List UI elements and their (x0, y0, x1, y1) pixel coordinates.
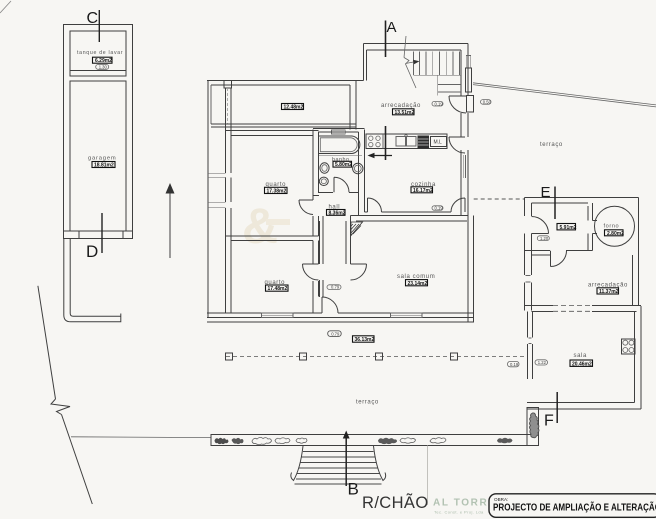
garage door notch right (123, 231, 133, 239)
house bottom wall (207, 313, 474, 318)
svg-text:terraço: terraço (540, 142, 563, 148)
window sill sala left (529, 338, 532, 344)
dashed connector house to east block (474, 198, 525, 200)
store room right wall (588, 203, 593, 251)
north arrow shaft (169, 192, 171, 258)
svg-text:1.20: 1.20 (540, 236, 549, 241)
svg-text:8.36m2: 8.36m2 (329, 210, 346, 216)
stair landing line (414, 75, 462, 95)
sala comum door (351, 264, 367, 280)
svg-text:sala: sala (574, 353, 587, 359)
area label 2.80m2 (605, 230, 624, 236)
toilet (320, 163, 329, 173)
svg-text:0.19: 0.19 (435, 101, 444, 106)
section line B (345, 438, 347, 486)
svg-text:23.14m2: 23.14m2 (408, 281, 428, 287)
area label 16.17m2 (411, 187, 433, 193)
svg-text:F: F (544, 413, 554, 430)
shelf under tub (319, 155, 363, 157)
area label 13.51m2 (393, 109, 415, 115)
area label 23.14m2 (406, 280, 428, 286)
svg-text:12.48m2: 12.48m2 (284, 105, 304, 111)
svg-text:16.17m2: 16.17m2 (413, 188, 433, 194)
veranda dashed edge (226, 356, 527, 358)
area label 17.38m2 (265, 187, 288, 193)
dim tag 1.20 (537, 236, 549, 241)
boundary line lower (62, 415, 93, 505)
section line E (554, 187, 556, 220)
kitchen left wall (359, 130, 365, 216)
veranda edge line (207, 321, 474, 323)
svg-text:B: B (348, 480, 359, 499)
plant clump vertical band (530, 413, 540, 438)
quarto2 right wall (313, 240, 319, 313)
corridor dim tag 0.79 (327, 285, 341, 290)
terrain double line top right (473, 83, 656, 107)
area label 8.36m2 (327, 210, 346, 216)
quarto1 left wall (226, 88, 232, 313)
svg-text:Tec. Const. e Proj. Lda: Tec. Const. e Proj. Lda (434, 510, 484, 515)
svg-text:1.22: 1.22 (538, 360, 547, 365)
section line C (98, 10, 100, 42)
veranda post 4 (451, 353, 458, 360)
dim tag 0.19 top wall (432, 101, 443, 106)
section line A lower (385, 126, 387, 160)
quarto2 door (303, 264, 319, 280)
door into store room 5.91 (532, 217, 549, 234)
svg-text:AL TORRE: AL TORRE (433, 498, 497, 509)
area label 12.48m2 (282, 104, 304, 110)
svg-text:C: C (87, 10, 99, 27)
veranda dim tag 0.79 (328, 331, 342, 337)
area label 36.13m2 (353, 336, 375, 342)
section line F (556, 392, 558, 423)
svg-text:OBRA:: OBRA: (494, 497, 508, 502)
veranda post 3 (376, 353, 383, 360)
svg-text:M.L: M.L (434, 140, 443, 146)
area label 6.29m2 (93, 57, 113, 63)
planter band horizontal (211, 434, 539, 445)
svg-text:terraço: terraço (356, 400, 379, 406)
plant clump outline 5 (430, 438, 446, 444)
window sill east left wall (526, 276, 531, 283)
hatched corner triangle (351, 222, 363, 236)
forno circle (595, 206, 635, 246)
svg-text:tanque de lavar: tanque de lavar (77, 50, 123, 56)
kitchen upper right door (449, 137, 465, 153)
plant clump outline 3 (378, 438, 397, 444)
sala stove (621, 339, 635, 354)
sala comum top wall (351, 216, 469, 222)
svg-text:2.80m2: 2.80m2 (607, 231, 624, 237)
cozinha door right in bottom wall (451, 198, 465, 212)
plant clump outline 2 (275, 438, 290, 444)
plant clump dark 1 (215, 438, 229, 444)
door arrecadacao to terrace (449, 96, 466, 113)
divider wall tanque/garagem (70, 71, 126, 77)
store room bottom wall (524, 251, 592, 255)
bidet (319, 177, 328, 185)
window bottom left (262, 313, 294, 318)
forno neck (593, 220, 598, 233)
east block right wall (633, 197, 639, 306)
area label 17.48m2 (266, 285, 289, 291)
bathtub (319, 136, 360, 154)
plant clump dark 2 (232, 438, 244, 444)
corridor left wall (320, 216, 324, 297)
door store room to arrecadacao (551, 251, 567, 267)
svg-text:6.29m2: 6.29m2 (95, 58, 112, 64)
svg-text:1.30: 1.30 (99, 65, 108, 70)
corridor right wall (346, 216, 351, 265)
svg-text:&: & (242, 198, 278, 254)
exterior door at corridor bottom (322, 297, 338, 313)
wall between quartos (226, 236, 319, 241)
sala right wall (635, 306, 642, 409)
house left outer edge (207, 81, 209, 319)
dishwasher dark unit (418, 136, 430, 149)
svg-text:A: A (387, 19, 397, 36)
fan stair right flare (374, 446, 386, 481)
boundary line upper (38, 286, 56, 399)
house top wall (207, 81, 364, 86)
garage door notch left (64, 231, 80, 239)
page corner mark (0, 1, 11, 13)
stove burners (382, 134, 384, 149)
window lines in right wall (463, 155, 465, 178)
area label 20.46m2 (570, 360, 593, 366)
sink double bowl (396, 137, 406, 147)
strip room left inner line (210, 85, 212, 124)
plant clump outline 1 (252, 437, 272, 444)
kitchen counter outline (366, 134, 447, 149)
window bottom right (391, 313, 423, 318)
dim tag 0.50 terrain (481, 100, 492, 105)
section line D (101, 213, 103, 253)
title block frame (489, 494, 656, 518)
veranda post 2 (300, 353, 307, 360)
section line A upper (385, 21, 387, 58)
top wall pillar notch (224, 81, 232, 89)
plant clump dark 3 (296, 438, 307, 443)
dim tag 0.19 left of sala (508, 361, 520, 366)
boundary break mark (51, 399, 70, 415)
quarto1 top wall (226, 131, 319, 136)
garage outer wall (64, 25, 133, 239)
sala bottom wall (527, 403, 641, 409)
strip room bottom wall (211, 124, 356, 127)
stair block top wall (364, 44, 469, 51)
svg-text:garagem: garagem (88, 156, 116, 162)
sala left wall (528, 311, 533, 379)
banho bottom wall (313, 192, 359, 195)
svg-text:forno: forno (604, 224, 620, 230)
svg-text:18.81m2: 18.81m2 (94, 163, 114, 169)
svg-text:D: D (86, 242, 98, 261)
east block left wall upper (524, 197, 531, 310)
faint crease line below planter (427, 446, 429, 506)
fan stair treads (295, 452, 382, 485)
quarto1 door (299, 200, 313, 215)
strip room right wall (350, 81, 356, 130)
stair lower treads (438, 85, 461, 93)
garagem inner wall (70, 81, 126, 231)
section A arrow (370, 155, 393, 157)
section B arrow head (343, 431, 350, 439)
banho top wall (313, 129, 365, 133)
east block top wall (524, 197, 638, 203)
stair upper flight treads (414, 52, 460, 75)
dim tag 1.22 (535, 360, 548, 365)
svg-text:5.80m2: 5.80m2 (335, 162, 352, 168)
cozinha door left in bottom wall (368, 198, 382, 212)
svg-text:0.79: 0.79 (331, 332, 340, 337)
arrecadacao2 bottom wall (524, 306, 641, 312)
svg-text:R/CHÃO: R/CHÃO (362, 492, 429, 512)
plant clump dark 4 (497, 438, 513, 444)
window sill upper left (208, 173, 226, 177)
right wall with window (461, 150, 468, 216)
svg-text:0.79: 0.79 (331, 285, 340, 290)
cozinha dim tag 0.79 (432, 206, 443, 210)
M.L appliance box (431, 137, 447, 147)
tanque inner wall (70, 31, 126, 71)
fan stair left flare (291, 446, 303, 481)
sala comum right wall (468, 216, 474, 322)
niche in banho top wall (332, 130, 346, 134)
area label 5.91m2 (557, 224, 576, 230)
svg-text:0.50: 0.50 (483, 100, 492, 105)
window sill lower left (208, 202, 226, 207)
garden wall from garage (64, 239, 121, 322)
stair block right wall upper (461, 44, 468, 97)
svg-text:5.91m2: 5.91m2 (560, 225, 577, 231)
veranda post 1 (226, 353, 233, 360)
stair direction arrow (404, 58, 416, 89)
svg-text:36.13m2: 36.13m2 (355, 337, 375, 343)
banho door (334, 177, 349, 192)
area label 11.37m2 (597, 288, 619, 294)
quarto1 right wall (313, 130, 319, 236)
washbasin (353, 163, 363, 173)
stair block left wall (364, 44, 367, 81)
area label 5.80m2 (333, 161, 352, 167)
svg-text:E: E (541, 184, 551, 201)
window dashes in wall (553, 306, 592, 312)
svg-text:0.19: 0.19 (510, 362, 519, 367)
svg-text:arrecadação: arrecadação (381, 103, 421, 109)
kitchen bottom wall (351, 212, 452, 216)
svg-text:13.51m2: 13.51m2 (395, 110, 415, 116)
dim tag 1.30 (96, 65, 109, 70)
dashed wall edge top-left (227, 88, 229, 124)
svg-text:11.37m2: 11.37m2 (599, 289, 619, 295)
svg-text:0.19: 0.19 (435, 206, 444, 211)
right wall segment below stair door (461, 113, 468, 137)
svg-text:17.48m2: 17.48m2 (268, 286, 288, 292)
north arrow head (166, 183, 175, 194)
svg-text:20.46m2: 20.46m2 (572, 361, 592, 367)
area label 18.81m2 (92, 162, 115, 168)
plant clump outline 4 (400, 438, 416, 444)
terrain line to planter (71, 436, 211, 439)
planter band vertical (527, 408, 539, 446)
wall window segments right of stairs (466, 56, 471, 68)
svg-text:PROJECTO DE AMPLIAÇÃO E ALTERA: PROJECTO DE AMPLIAÇÃO E ALTERAÇÃO (493, 501, 656, 514)
svg-text:17.38m2: 17.38m2 (267, 189, 287, 195)
watermark bar (266, 219, 290, 225)
